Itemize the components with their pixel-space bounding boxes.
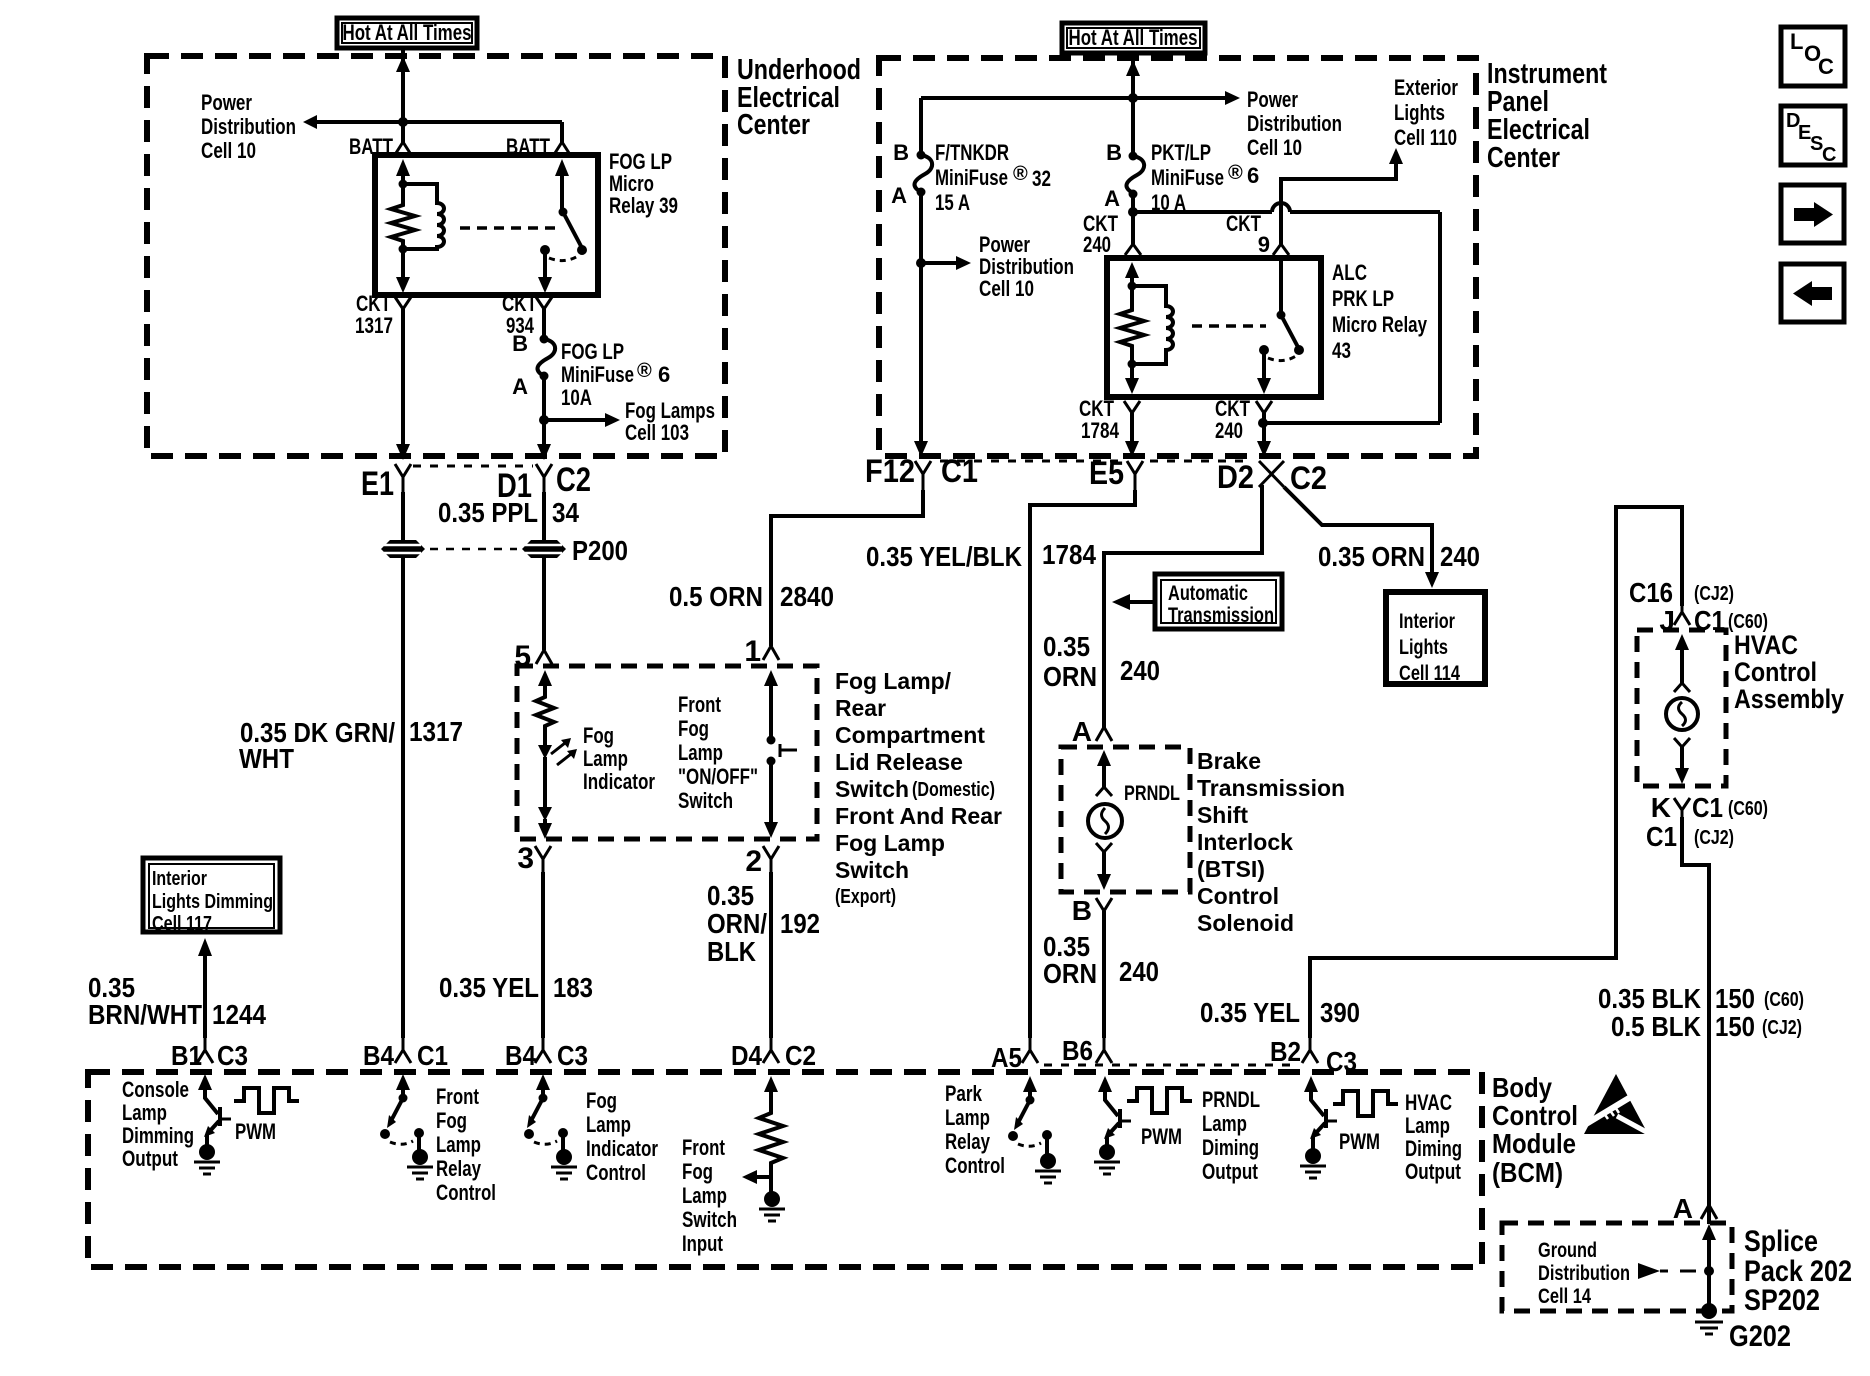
- svg-text:Control: Control: [1492, 1100, 1578, 1131]
- svg-text:(C60): (C60): [1728, 798, 1768, 820]
- fuse PKT/LP MiniFuse 6 10A: [1129, 152, 1138, 161]
- svg-text:WHT: WHT: [239, 743, 294, 774]
- svg-text:BRN/WHT: BRN/WHT: [88, 999, 202, 1030]
- ground (console output): [199, 1144, 215, 1160]
- wire K down to splice pack A (0.35 BLK 150): [1682, 817, 1709, 1224]
- svg-text:Power: Power: [201, 90, 252, 115]
- svg-text:1317: 1317: [409, 716, 463, 747]
- wire arrow Automatic Transmission: [1129, 600, 1155, 604]
- svg-text:Fog: Fog: [586, 1088, 617, 1113]
- svg-text:F12: F12: [865, 453, 915, 489]
- svg-text:Distribution: Distribution: [201, 114, 296, 139]
- svg-text:0.5 ORN: 0.5 ORN: [669, 581, 763, 612]
- svg-text:Cell 14: Cell 14: [1538, 1285, 1591, 1308]
- svg-text:Diming: Diming: [1405, 1136, 1462, 1161]
- wire ground distribution arrow (dashed): [1638, 1263, 1660, 1279]
- svg-text:C3: C3: [217, 1040, 248, 1071]
- wire to Power Distribution Cell 10 (left arrow): [316, 120, 562, 124]
- svg-text:0.35 ORN: 0.35 ORN: [1318, 541, 1425, 572]
- svg-text:Park: Park: [945, 1081, 983, 1106]
- icon forward arrow button: [1781, 185, 1844, 243]
- svg-text:Interior: Interior: [152, 868, 207, 890]
- svg-text:D2: D2: [1217, 459, 1254, 495]
- svg-text:L: L: [1790, 29, 1803, 54]
- svg-text:0.35 YEL: 0.35 YEL: [1200, 997, 1300, 1028]
- svg-text:0.35 YEL: 0.35 YEL: [439, 972, 539, 1003]
- svg-text:(Export): (Export): [835, 886, 896, 908]
- ground (PRNDL output): [1099, 1144, 1115, 1160]
- svg-text:Console: Console: [122, 1077, 189, 1102]
- svg-text:Output: Output: [122, 1146, 179, 1171]
- waveform PWM (console): [234, 1088, 299, 1113]
- svg-text:15 A: 15 A: [935, 190, 970, 215]
- svg-text:1: 1: [744, 635, 761, 668]
- fuse FOG LP MiniFuse 6 10A: [540, 335, 549, 344]
- svg-text:®: ®: [637, 360, 652, 382]
- ground (fog indicator control): [556, 1149, 572, 1165]
- svg-text:Fog: Fog: [436, 1108, 467, 1133]
- svg-text:Dimming: Dimming: [122, 1123, 194, 1148]
- svg-text:Center: Center: [737, 109, 810, 141]
- svg-text:SP202: SP202: [1744, 1284, 1820, 1317]
- relay switch blade: [563, 212, 582, 248]
- relay switch pin arrow (top right): [555, 159, 569, 176]
- svg-text:PWM: PWM: [1141, 1124, 1182, 1149]
- svg-text:Relay: Relay: [436, 1156, 482, 1181]
- wire B down to B6 (0.35 ORN 240): [1102, 911, 1106, 1038]
- wire C1 boundary (dashed): [940, 460, 1120, 463]
- svg-text:240: 240: [1440, 541, 1480, 572]
- svg-text:(Domestic): (Domestic): [912, 779, 995, 801]
- svg-text:150: 150: [1715, 983, 1755, 1014]
- svg-text:B6: B6: [1062, 1035, 1093, 1066]
- svg-text:ORN/: ORN/: [707, 908, 767, 939]
- svg-text:C1: C1: [1692, 792, 1723, 823]
- svg-text:Compartment: Compartment: [835, 722, 985, 748]
- svg-text:Cell 110: Cell 110: [1394, 125, 1457, 150]
- svg-text:Front And Rear: Front And Rear: [835, 803, 1002, 829]
- ground (fog switch input): [764, 1191, 780, 1207]
- svg-text:6: 6: [1247, 163, 1259, 188]
- waveform PWM (PRNDL): [1127, 1088, 1192, 1113]
- svg-text:Switch: Switch: [835, 776, 909, 802]
- svg-text:Assembly: Assembly: [1734, 684, 1844, 714]
- svg-text:PWM: PWM: [235, 1119, 276, 1144]
- svg-text:ALC: ALC: [1332, 260, 1367, 285]
- node Automatic Transmission: [1155, 574, 1282, 629]
- svg-text:Fog: Fog: [678, 716, 709, 741]
- svg-text:HVAC: HVAC: [1734, 630, 1798, 660]
- svg-text:C1: C1: [1646, 821, 1677, 852]
- svg-text:Lamp: Lamp: [1202, 1111, 1247, 1136]
- wire Interior Lights Dimming lead (0.35 BRN/WHT 1244): [203, 956, 207, 1038]
- svg-text:B: B: [893, 140, 909, 165]
- icon LOC button: [1781, 27, 1845, 86]
- svg-text:Lamp: Lamp: [682, 1183, 727, 1208]
- svg-text:32: 32: [1032, 166, 1051, 191]
- svg-text:Switch: Switch: [678, 788, 733, 813]
- relay coil pin arrow (top left): [396, 159, 410, 176]
- svg-text:Lamp: Lamp: [436, 1132, 481, 1157]
- svg-text:Exterior: Exterior: [1394, 75, 1458, 100]
- relay switch: [1279, 255, 1283, 315]
- svg-text:0.35 PPL: 0.35 PPL: [438, 497, 538, 528]
- svg-text:Switch: Switch: [682, 1207, 737, 1232]
- box Instrument Panel Electrical Center (dashed): [879, 58, 1476, 456]
- svg-text:Relay 39: Relay 39: [609, 193, 678, 218]
- svg-text:C1: C1: [417, 1040, 448, 1071]
- svg-text:0.35 BLK: 0.35 BLK: [1598, 983, 1701, 1014]
- svg-text:B: B: [1072, 895, 1092, 926]
- ground (HVAC output): [1305, 1148, 1321, 1164]
- svg-text:C2: C2: [1290, 460, 1327, 496]
- svg-text:A: A: [1104, 186, 1120, 211]
- svg-text:Control: Control: [1734, 657, 1817, 687]
- ground (park lamp relay): [1040, 1153, 1056, 1169]
- svg-text:Distribution: Distribution: [1247, 111, 1342, 136]
- svg-text:C3: C3: [557, 1040, 588, 1071]
- svg-text:Solenoid: Solenoid: [1197, 910, 1294, 936]
- wire fuse A down to relay: [1131, 194, 1135, 244]
- box Body Control Module BCM (dashed): [88, 1072, 1482, 1267]
- wire splice internal: [1702, 1224, 1716, 1240]
- svg-text:Control: Control: [1197, 883, 1279, 909]
- svg-text:Transmission: Transmission: [1197, 775, 1345, 801]
- svg-text:Lamp: Lamp: [945, 1105, 990, 1130]
- icon ESD warning triangle: [1584, 1074, 1652, 1135]
- svg-text:Lights: Lights: [1394, 100, 1445, 125]
- svg-text:Power: Power: [1247, 87, 1298, 112]
- lamp Fog Lamp Indicator (pin 5 leg): [538, 670, 552, 686]
- svg-text:240: 240: [1119, 956, 1159, 987]
- box Fog Lamp Switch (dashed): [517, 666, 817, 839]
- svg-text:192: 192: [780, 908, 820, 939]
- node feed junction: [1128, 93, 1138, 103]
- svg-text:PWM: PWM: [1339, 1129, 1380, 1154]
- svg-text:B4: B4: [363, 1040, 394, 1071]
- svg-text:(CJ2): (CJ2): [1694, 827, 1734, 849]
- wire pin 2 down (0.35 ORN/BLK 192): [769, 872, 773, 1038]
- wire CKT 9 riser to Exterior Lights: [1281, 163, 1396, 244]
- svg-text:Splice: Splice: [1744, 1225, 1818, 1258]
- svg-text:0.5 BLK: 0.5 BLK: [1611, 1011, 1701, 1042]
- relay coil pin arrow: [1125, 262, 1139, 278]
- svg-text:PRK LP: PRK LP: [1332, 286, 1394, 311]
- svg-text:Output: Output: [1405, 1159, 1462, 1184]
- wire E1 down (0.35 DK GRN/WHT 1317): [401, 492, 405, 540]
- svg-text:B: B: [512, 331, 528, 356]
- svg-text:Hot At All Times: Hot At All Times: [343, 20, 472, 45]
- wire F/TNKDR branch down: [919, 98, 923, 155]
- box Splice Pack 202 (dashed): [1502, 1223, 1732, 1311]
- svg-text:®: ®: [1228, 162, 1243, 184]
- waveform PWM (HVAC): [1333, 1091, 1398, 1116]
- svg-text:Micro Relay: Micro Relay: [1332, 312, 1428, 337]
- node Hot At All Times (right): [1062, 23, 1205, 53]
- wire 0.35 YEL 390 from B2 up and over: [1310, 507, 1682, 1038]
- wire loop bottom to CKT 240 junction: [1263, 421, 1440, 425]
- wire D2 to Interior Lights (0.35 ORN 240): [1284, 487, 1432, 572]
- svg-text:MiniFuse: MiniFuse: [1151, 165, 1224, 190]
- svg-text:E1: E1: [361, 465, 394, 503]
- svg-text:G202: G202: [1729, 1320, 1791, 1353]
- svg-text:Brake: Brake: [1197, 748, 1261, 774]
- svg-text:Front: Front: [678, 692, 722, 717]
- svg-text:®: ®: [1013, 163, 1028, 185]
- svg-text:Cell 10: Cell 10: [979, 276, 1034, 301]
- svg-text:PRNDL: PRNDL: [1124, 782, 1180, 805]
- svg-text:Ground: Ground: [1538, 1239, 1597, 1262]
- svg-text:Automatic: Automatic: [1168, 582, 1248, 605]
- svg-text:1784: 1784: [1042, 539, 1096, 570]
- svg-text:Cell 10: Cell 10: [1247, 135, 1302, 160]
- svg-text:9: 9: [1258, 232, 1270, 257]
- svg-text:C: C: [1818, 54, 1834, 79]
- wire C2 boundary (dashed): [413, 465, 533, 468]
- box Underhood Electrical Center (dashed): [147, 56, 725, 456]
- wire switch output: [543, 250, 547, 279]
- svg-text:Hot At All Times: Hot At All Times: [1069, 25, 1198, 50]
- svg-text:Lights Dimming: Lights Dimming: [152, 891, 273, 913]
- wire feed down from Hot box: [1131, 53, 1135, 155]
- connector P200 (in-line, D1 wire): [522, 535, 628, 566]
- svg-text:K: K: [1651, 792, 1671, 823]
- svg-text:A: A: [512, 374, 528, 399]
- svg-text:Lid Release: Lid Release: [835, 749, 963, 775]
- resistor (relay internal): [1120, 286, 1144, 364]
- svg-text:B: B: [1106, 140, 1122, 165]
- svg-text:240: 240: [1120, 655, 1160, 686]
- svg-text:Fog: Fog: [682, 1159, 713, 1184]
- svg-text:240: 240: [1083, 232, 1111, 257]
- svg-text:Control: Control: [586, 1160, 646, 1185]
- svg-text:240: 240: [1215, 418, 1243, 443]
- relay control link (dashed): [1192, 324, 1266, 328]
- svg-text:D4: D4: [731, 1040, 762, 1071]
- relay FOG LP Micro Relay 39: [375, 155, 598, 295]
- svg-text:10A: 10A: [561, 385, 592, 410]
- svg-text:PKT/LP: PKT/LP: [1151, 140, 1211, 165]
- svg-text:34: 34: [552, 497, 579, 528]
- resistor (relay internal): [391, 184, 415, 249]
- svg-text:Relay: Relay: [945, 1129, 991, 1154]
- svg-text:B2: B2: [1270, 1036, 1301, 1067]
- wire loop right vertical: [1438, 212, 1442, 423]
- svg-text:Control: Control: [436, 1180, 496, 1205]
- svg-text:1244: 1244: [212, 999, 266, 1030]
- svg-text:Diming: Diming: [1202, 1135, 1259, 1160]
- wire pin 3 down (0.35 YEL 183): [541, 872, 545, 1038]
- svg-text:C16: C16: [1629, 577, 1673, 608]
- svg-text:Switch: Switch: [835, 857, 909, 883]
- fuse F/TNKDR MiniFuse 32 15A: [917, 151, 926, 160]
- svg-text:Interlock: Interlock: [1197, 829, 1293, 855]
- node power junction: [398, 117, 408, 127]
- svg-text:ORN: ORN: [1043, 958, 1097, 989]
- wire BATT right drop: [560, 122, 564, 144]
- svg-text:Rear: Rear: [835, 695, 886, 721]
- svg-text:2840: 2840: [780, 581, 834, 612]
- svg-text:Interior: Interior: [1399, 610, 1455, 633]
- icon DESC button: [1781, 106, 1845, 166]
- wire fuse feed right: [1133, 210, 1272, 214]
- svg-text:1317: 1317: [355, 313, 393, 338]
- svg-text:P200: P200: [572, 535, 628, 566]
- node Hot At All Times (left): [337, 18, 477, 48]
- svg-text:Cell 10: Cell 10: [201, 138, 256, 163]
- wire 0.5 ORN 2840 from F12 to pin 1: [771, 490, 923, 646]
- svg-text:C3: C3: [1326, 1046, 1357, 1077]
- svg-text:PRNDL: PRNDL: [1202, 1087, 1260, 1112]
- svg-text:FOG LP: FOG LP: [561, 339, 624, 364]
- svg-text:(C60): (C60): [1764, 989, 1804, 1011]
- wire connector boundary (dashed thin): [1044, 1064, 1294, 1067]
- svg-text:(CJ2): (CJ2): [1694, 583, 1734, 605]
- svg-text:Front: Front: [436, 1084, 480, 1109]
- svg-text:Lamp: Lamp: [586, 1112, 631, 1137]
- wire CKT 1317 down to E1: [401, 309, 405, 447]
- node Interior Lights Dimming Cell 117: [143, 858, 280, 935]
- wire to Power Distribution Cell 10 (right arrow): [921, 96, 1226, 100]
- wire feed from Hot At All Times down to BATT junction: [401, 48, 405, 143]
- wire D1 down (0.35 PPL 34): [542, 492, 546, 540]
- svg-text:A: A: [1673, 1193, 1693, 1224]
- svg-text:C: C: [1822, 144, 1836, 166]
- svg-text:1784: 1784: [1081, 418, 1120, 443]
- ground G202: [1701, 1303, 1717, 1319]
- svg-text:Shift: Shift: [1197, 802, 1248, 828]
- svg-text:"ON/OFF": "ON/OFF": [678, 764, 758, 789]
- svg-text:F/TNKDR: F/TNKDR: [935, 140, 1009, 165]
- svg-text:Input: Input: [682, 1231, 724, 1256]
- svg-text:390: 390: [1320, 997, 1360, 1028]
- node fog lamps tap junction: [539, 415, 549, 425]
- svg-text:2: 2: [745, 845, 762, 878]
- svg-text:Cell 103: Cell 103: [625, 420, 689, 445]
- svg-text:Fog Lamp/: Fog Lamp/: [835, 668, 952, 694]
- svg-text:Cell 114: Cell 114: [1399, 662, 1460, 685]
- svg-text:HVAC: HVAC: [1405, 1090, 1452, 1115]
- svg-text:ORN: ORN: [1043, 661, 1097, 692]
- svg-text:C1: C1: [941, 453, 978, 489]
- svg-text:0.35: 0.35: [1043, 631, 1090, 662]
- svg-text:Body: Body: [1492, 1072, 1552, 1103]
- svg-text:Lights: Lights: [1399, 636, 1448, 659]
- wire fuse down to D1: [542, 376, 546, 447]
- svg-text:C2: C2: [785, 1040, 816, 1071]
- wire P200 link (dashed): [430, 548, 517, 551]
- wire D2 to BTSI (0.35 ORN 240): [1104, 485, 1262, 728]
- svg-text:A: A: [891, 183, 907, 208]
- svg-text:0.35: 0.35: [707, 880, 754, 911]
- ground (fog relay control): [412, 1149, 428, 1165]
- coil (relay internal): [1132, 286, 1173, 364]
- wire CKT 934 to fuse: [542, 309, 546, 338]
- svg-text:(BCM): (BCM): [1492, 1157, 1563, 1188]
- svg-text:Distribution: Distribution: [1538, 1262, 1630, 1285]
- svg-text:3: 3: [517, 842, 534, 875]
- svg-text:Front: Front: [682, 1135, 726, 1160]
- svg-text:Lamp: Lamp: [122, 1100, 167, 1125]
- lamp HVAC illumination: [1675, 634, 1689, 650]
- svg-text:Control: Control: [945, 1153, 1005, 1178]
- svg-text:Lamp: Lamp: [1405, 1113, 1450, 1138]
- wire coil to CKT 1317 pin: [401, 249, 405, 279]
- icon back arrow button: [1781, 264, 1844, 322]
- relay ALC PRK LP Micro Relay 43: [1107, 258, 1321, 397]
- svg-text:(CJ2): (CJ2): [1762, 1017, 1802, 1039]
- svg-text:A: A: [1072, 716, 1092, 747]
- svg-text:Cell 117: Cell 117: [152, 913, 212, 935]
- svg-text:MiniFuse: MiniFuse: [935, 165, 1008, 190]
- svg-text:C2: C2: [556, 461, 591, 499]
- wire to Fog Lamps Cell 103: [544, 418, 606, 422]
- connector P200 (in-line, E1 wire): [381, 540, 425, 558]
- svg-text:Output: Output: [1202, 1159, 1259, 1184]
- wire 0.35 YEL/BLK 1784: [1030, 490, 1135, 1038]
- svg-text:Fog: Fog: [583, 723, 614, 748]
- svg-text:(BTSI): (BTSI): [1197, 856, 1265, 882]
- svg-text:Indicator: Indicator: [583, 769, 655, 794]
- node power distribution tap: [916, 258, 926, 268]
- wire fuse A down to F12: [919, 192, 923, 446]
- coil (relay internal): [403, 184, 444, 249]
- box HVAC Control Assembly (dashed): [1637, 630, 1726, 786]
- svg-text:0.35 YEL/BLK: 0.35 YEL/BLK: [866, 541, 1022, 572]
- svg-text:Module: Module: [1492, 1128, 1576, 1159]
- svg-text:CKT: CKT: [1226, 211, 1261, 236]
- svg-text:Lamp: Lamp: [583, 746, 628, 771]
- svg-text:Lamp: Lamp: [678, 740, 723, 765]
- svg-text:Indicator: Indicator: [586, 1136, 658, 1161]
- svg-text:Fog Lamp: Fog Lamp: [835, 830, 945, 856]
- svg-text:BLK: BLK: [707, 936, 756, 967]
- svg-text:183: 183: [553, 972, 593, 1003]
- svg-text:43: 43: [1332, 338, 1351, 363]
- svg-text:B4: B4: [505, 1040, 536, 1071]
- relay control link (dashed): [460, 226, 556, 230]
- svg-text:A5: A5: [991, 1042, 1022, 1073]
- wire hop over CKT 9 riser: [1272, 203, 1290, 212]
- svg-text:6: 6: [658, 362, 670, 387]
- svg-text:B1: B1: [171, 1040, 202, 1071]
- node Interior Lights Cell 114: [1386, 592, 1485, 685]
- svg-text:Center: Center: [1487, 142, 1560, 174]
- svg-text:Transmission: Transmission: [1168, 604, 1274, 627]
- svg-text:150: 150: [1715, 1011, 1755, 1042]
- svg-text:MiniFuse: MiniFuse: [561, 362, 634, 387]
